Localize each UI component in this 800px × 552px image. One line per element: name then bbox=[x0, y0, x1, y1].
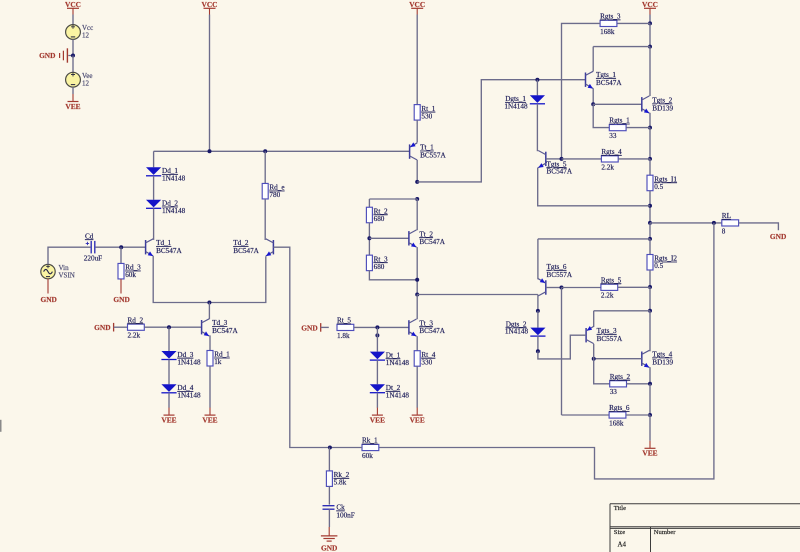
power VEE pin (output) bbox=[642, 441, 657, 458]
svg-text:Rgts_2: Rgts_2 bbox=[610, 373, 631, 381]
svg-text:VCC: VCC bbox=[201, 0, 217, 9]
wire Vee- to VEE pin bbox=[72, 87, 74, 94]
transistor Tt_3 BC547A bbox=[409, 319, 417, 336]
svg-text:GND: GND bbox=[770, 232, 786, 241]
svg-text:33: 33 bbox=[609, 132, 617, 140]
svg-text:VCC: VCC bbox=[65, 0, 81, 9]
junction VCC rail / Rgts_3 bbox=[648, 21, 652, 25]
transistor Tgts_1 BC547A bbox=[586, 71, 594, 88]
svg-text:A4: A4 bbox=[618, 540, 627, 548]
svg-text:Title: Title bbox=[614, 505, 626, 512]
wire Tgts_1 emitter down bbox=[592, 88, 594, 104]
junction Rt_2/Rt_3/Tt_2 base bbox=[367, 236, 371, 240]
wire diff pair top rail to Tt_1 base bbox=[154, 150, 410, 152]
resistor Rgts_I2 0.5 bbox=[647, 255, 677, 271]
svg-text:Tt_3: Tt_3 bbox=[419, 319, 433, 327]
wire Rt_4 to VEE bbox=[416, 366, 418, 408]
svg-text:BD139: BD139 bbox=[652, 105, 673, 113]
voltage source Vee 12V bbox=[66, 72, 81, 87]
wire VCC to rail bbox=[649, 15, 651, 24]
wire Rgts_I2 to Rgts_5 node bbox=[649, 270, 651, 287]
wire Tgts_4 emitter to rail bbox=[649, 367, 651, 384]
wire Tgts_3 emitter drop bbox=[593, 311, 595, 327]
junction Tgts_4 base / Tgts_3 collector bbox=[592, 357, 596, 361]
svg-text:VCC: VCC bbox=[642, 0, 658, 9]
wire Tgts_5 emitter return bbox=[538, 168, 650, 206]
wire Rd_2 to Td_3 base bbox=[144, 326, 201, 328]
svg-text:2.2k: 2.2k bbox=[601, 163, 614, 171]
svg-text:168k: 168k bbox=[600, 28, 615, 36]
resistor Rgts_1 33 bbox=[609, 117, 630, 140]
power VEE pin (supply column) bbox=[65, 94, 80, 111]
resistor Rgts_2 33 bbox=[610, 373, 631, 396]
wire Rgts_1 left lead bbox=[593, 104, 609, 127]
svg-text:5.8k: 5.8k bbox=[334, 479, 347, 487]
svg-text:Rgts_3: Rgts_3 bbox=[600, 13, 621, 21]
resistor Rt_2 680 bbox=[366, 207, 388, 223]
power VEE pin below Rd_1 bbox=[202, 408, 217, 425]
title block bbox=[610, 504, 800, 552]
svg-text:1N4148: 1N4148 bbox=[505, 327, 529, 335]
wire rail to Rd_e bbox=[264, 151, 266, 183]
resistor Rt_5 1.8k bbox=[337, 317, 354, 340]
wire junction to Dd_3 bbox=[168, 327, 170, 351]
svg-text:BD139: BD139 bbox=[652, 359, 673, 367]
ground below Rd_3 bbox=[113, 279, 129, 304]
ground symbol (supply midpoint) bbox=[60, 48, 73, 62]
junction Dgts_2 cathode bbox=[536, 349, 540, 353]
node B junction bbox=[415, 293, 419, 297]
svg-text:Td_2: Td_2 bbox=[233, 239, 249, 247]
wire Tgts_4 base lead bbox=[594, 358, 642, 360]
diode Dd_1 1N4148 bbox=[146, 167, 186, 183]
load resistor RL 8 bbox=[722, 212, 739, 235]
wire Dd_1 to Dd_2 bbox=[153, 176, 155, 200]
transistor Tgts_3 BC557A bbox=[586, 326, 594, 344]
svg-text:GND: GND bbox=[39, 51, 55, 60]
wire Tgts_6 emitter return bbox=[538, 238, 650, 240]
wire node B to Tt_3 collector bbox=[416, 295, 418, 320]
svg-text:BC547A: BC547A bbox=[156, 247, 182, 255]
wire Tt_1 collector to node A bbox=[416, 160, 418, 182]
node A junction bbox=[415, 180, 419, 184]
resistor Rd_3 60k bbox=[118, 263, 141, 279]
transistor Tgts_2 BD139 bbox=[642, 96, 650, 113]
svg-text:Vin: Vin bbox=[59, 264, 70, 272]
svg-text:Rgts_6: Rgts_6 bbox=[609, 404, 630, 412]
svg-text:1N4148: 1N4148 bbox=[504, 103, 528, 111]
wire Vin to Cd bbox=[48, 247, 90, 264]
wire rail to VEE bbox=[649, 415, 651, 441]
wire corner Rt_2 bbox=[368, 199, 370, 207]
wire Td_3 collector to emitter rail bbox=[208, 303, 210, 320]
transistor Tt_2 BC547A bbox=[409, 230, 417, 247]
wire Rgts_6 left lead bbox=[562, 414, 610, 416]
svg-text:2.2k: 2.2k bbox=[601, 292, 614, 300]
ground at Rd_2 bbox=[94, 323, 113, 332]
wire rail to Rgts_I1 bbox=[649, 159, 651, 175]
transistor Tgts_6 BC557A bbox=[538, 278, 546, 296]
power VEE pin below Dt_2 bbox=[370, 408, 385, 425]
transistor Tt_1 BC557A bbox=[410, 142, 418, 160]
wire base node down to Rgts_6 bbox=[561, 288, 563, 416]
wire Cd to Td_1 base bbox=[96, 246, 146, 248]
wire Ck to ground bbox=[328, 509, 330, 527]
wire junction to Rk_2 bbox=[328, 448, 330, 471]
svg-text:Tgts_1: Tgts_1 bbox=[596, 71, 616, 79]
wire GND to Rt_5 bbox=[321, 326, 329, 328]
transistor Td_1 BC547A bbox=[146, 239, 154, 256]
junction feedback / Rk_2 bbox=[328, 446, 332, 450]
svg-text:GND: GND bbox=[301, 323, 317, 332]
wire Dt_1 to Dt_2 bbox=[376, 360, 378, 384]
svg-text:Rgts_5: Rgts_5 bbox=[601, 276, 622, 284]
svg-text:VCC: VCC bbox=[409, 0, 425, 9]
power VCC pin (supply column) bbox=[65, 0, 81, 15]
wire Dgts_2 to Tgts_3 base bbox=[538, 335, 586, 359]
svg-text:12: 12 bbox=[82, 80, 90, 88]
diode Dd_3 1N4148 bbox=[161, 351, 201, 367]
svg-text:BC547A: BC547A bbox=[596, 79, 622, 87]
svg-text:GND: GND bbox=[40, 295, 56, 304]
svg-text:12: 12 bbox=[82, 32, 90, 40]
junction rail / Rgts_5 bbox=[648, 285, 652, 289]
svg-text:VEE: VEE bbox=[370, 415, 385, 424]
diode Dgts_1 1N4148 bbox=[504, 95, 545, 111]
junction input node bbox=[119, 245, 123, 249]
svg-text:Tgts_3: Tgts_3 bbox=[597, 327, 617, 335]
wire Rgts_1 to rail bbox=[626, 127, 650, 129]
wire output node down bbox=[649, 223, 651, 239]
wire Tgts_1 collector to rail bbox=[593, 46, 650, 48]
svg-text:1.8k: 1.8k bbox=[337, 332, 350, 340]
resistor Rt_3 680 bbox=[366, 255, 388, 271]
wire to Tgts_2 base bbox=[593, 103, 642, 105]
svg-text:8: 8 bbox=[722, 227, 726, 235]
wire Tgts_3 collector to Rgts_2 bbox=[594, 344, 610, 384]
output node junction bbox=[648, 221, 652, 225]
power VCC pin (VAS) bbox=[409, 0, 425, 15]
svg-text:680: 680 bbox=[374, 263, 385, 271]
junction Td_3 base / diode chain bbox=[167, 325, 171, 329]
wire Rgts_I1 to output node bbox=[649, 191, 651, 223]
svg-text:680: 680 bbox=[374, 215, 385, 223]
wire node to Rd_3 bbox=[120, 247, 122, 263]
svg-text:GND: GND bbox=[94, 323, 110, 332]
junction Dgts_2 anode bbox=[536, 309, 540, 313]
svg-text:VSIN: VSIN bbox=[59, 272, 75, 280]
power VEE pin below Dd_4 bbox=[161, 408, 176, 425]
wire rail to Tgts_2 collector bbox=[649, 47, 651, 96]
resistor Rgts_4 2.2k bbox=[601, 148, 622, 171]
wire junction to Tt_2 base bbox=[369, 237, 409, 239]
wire feedback from output bbox=[379, 223, 714, 479]
wire VCC to diff pair top rail bbox=[209, 15, 211, 152]
transistor Tgts_4 BD139 bbox=[642, 350, 650, 367]
svg-text:Td_3: Td_3 bbox=[212, 319, 228, 327]
wire Dd_4 to VEE bbox=[168, 393, 170, 408]
svg-text:220uF: 220uF bbox=[84, 254, 102, 262]
wire Rgts_3 to rail bbox=[617, 22, 650, 24]
svg-text:BC557A: BC557A bbox=[597, 335, 623, 343]
svg-text:1N4148: 1N4148 bbox=[162, 175, 186, 183]
svg-text:0.5: 0.5 bbox=[654, 262, 663, 270]
wire Rd_1 to VEE bbox=[209, 366, 211, 408]
svg-text:Rk_1: Rk_1 bbox=[362, 437, 378, 445]
wire junction to Dt_1 bbox=[376, 327, 378, 351]
svg-text:Rgts_1: Rgts_1 bbox=[609, 117, 630, 125]
wire Tgts_6 base lead bbox=[546, 287, 562, 289]
wire Tt_3 emitter to Rt_4 bbox=[416, 336, 418, 351]
svg-text:1N4148: 1N4148 bbox=[386, 359, 410, 367]
diode Dd_4 1N4148 bbox=[161, 384, 201, 400]
wire emitter rail of diff pair bbox=[153, 256, 266, 303]
ground symbol below Ck bbox=[321, 527, 338, 541]
wire junction to Dgts_1 bbox=[536, 80, 538, 96]
wire Rk_2 to Ck bbox=[328, 486, 330, 504]
junction Tgts_5 base node bbox=[560, 157, 564, 161]
svg-text:BC557A: BC557A bbox=[420, 151, 446, 159]
junction rail / Tgts_3 emitter return bbox=[648, 309, 652, 313]
wire GND node to Vee source bbox=[72, 56, 74, 73]
wire Vcc- to GND node bbox=[72, 39, 74, 55]
diode Dt_2 1N4148 bbox=[370, 384, 410, 400]
wire output node to RL bbox=[650, 222, 721, 224]
source Vin VSIN bbox=[41, 264, 55, 278]
wire rail segment bbox=[649, 384, 651, 415]
svg-text:VEE: VEE bbox=[202, 415, 217, 424]
junction Tgts_6 base node bbox=[560, 286, 564, 290]
resistor Rk_1 60k bbox=[362, 437, 379, 460]
wire Dd_3 to Dd_4 bbox=[168, 360, 170, 385]
resistor Rd_2 2.2k bbox=[128, 316, 145, 339]
svg-text:GND: GND bbox=[113, 295, 129, 304]
wire Tt_2 emitter down to node B bbox=[416, 247, 418, 294]
svg-text:330: 330 bbox=[421, 358, 432, 366]
resistor Rk_2 5.8k bbox=[326, 471, 349, 487]
junction node A / Rt_2 branch bbox=[415, 197, 419, 201]
wire to Dgts_2 bbox=[537, 311, 539, 328]
resistor Rd_1 1k bbox=[207, 351, 230, 367]
wire Rt_2 to Rt_3 bbox=[368, 223, 370, 256]
junction rail / Rgts_2 bbox=[648, 382, 652, 386]
svg-text:VEE: VEE bbox=[410, 415, 425, 424]
svg-text:VEE: VEE bbox=[642, 449, 657, 458]
diode Dgts_2 1N4148 bbox=[505, 320, 546, 336]
junction Rt_3 / emitter bbox=[415, 278, 419, 282]
junction top rail / VCC bbox=[208, 149, 212, 153]
wire Rt_3 to emitter node bbox=[369, 270, 417, 280]
wire rail to Rgts_I2 bbox=[649, 239, 651, 255]
sheet edge mark bbox=[0, 420, 2, 432]
wire branch top to Rt_2 bbox=[369, 198, 417, 200]
svg-text:Tt_2: Tt_2 bbox=[419, 230, 433, 238]
ground at Rt_5 bbox=[301, 323, 320, 332]
wire Dt_2 to VEE bbox=[376, 393, 378, 408]
svg-text:Rd_2: Rd_2 bbox=[128, 316, 144, 324]
svg-text:BC547A: BC547A bbox=[419, 327, 445, 335]
junction supply midpoint bbox=[71, 54, 75, 58]
wire rail segment bbox=[649, 128, 651, 159]
resistor Rt_1 530 bbox=[414, 105, 436, 121]
wire Dgts_1 to Tgts_5 collector bbox=[536, 104, 538, 151]
wire rail to Tgts_4 collector bbox=[649, 311, 651, 352]
svg-text:1N4148: 1N4148 bbox=[386, 392, 410, 400]
wire feedback to Td_2 base bbox=[273, 247, 362, 447]
wire node B to output driver bbox=[417, 294, 538, 296]
svg-text:BC547A: BC547A bbox=[419, 238, 445, 246]
wire Rgts_2 to rail bbox=[627, 383, 651, 385]
wire Dgts_2 to junction bbox=[537, 336, 539, 351]
wire Rt_5 to Tt_3 base bbox=[354, 326, 409, 328]
svg-text:RL: RL bbox=[722, 212, 731, 220]
svg-text:BC547A: BC547A bbox=[212, 327, 238, 335]
wire base node to Rgts_5 bbox=[562, 287, 601, 289]
resistor Rt_4 330 bbox=[414, 351, 436, 367]
junction Tt_3 base / Dt chain bbox=[375, 325, 379, 329]
svg-text:BC547A: BC547A bbox=[547, 168, 573, 176]
wire base node to Rgts_4 bbox=[562, 158, 602, 160]
svg-text:BC557A: BC557A bbox=[547, 271, 573, 279]
wire VCC to Vcc source bbox=[72, 15, 74, 25]
ground at RL bbox=[770, 232, 786, 241]
svg-text:Rt_5: Rt_5 bbox=[337, 317, 351, 325]
junction rail / Rgts_4 bbox=[648, 157, 652, 161]
svg-text:1k: 1k bbox=[214, 358, 222, 366]
wire Tgts_2 emitter to rail bbox=[649, 113, 651, 128]
junction diff pair emitters / Td_3 collector bbox=[207, 301, 211, 305]
svg-text:Number: Number bbox=[654, 529, 676, 536]
svg-text:60k: 60k bbox=[362, 452, 373, 460]
junction rail / Tgts_6 emitter return bbox=[648, 237, 652, 241]
svg-text:60k: 60k bbox=[125, 271, 136, 279]
svg-text:1N4148: 1N4148 bbox=[177, 392, 201, 400]
junction RL / feedback bbox=[712, 221, 716, 225]
junction rail / Rgts_6 bbox=[648, 413, 652, 417]
wire collector drop bbox=[592, 47, 594, 72]
svg-text:0.5: 0.5 bbox=[654, 183, 663, 191]
capacitor Cd 220uF bbox=[86, 241, 95, 254]
svg-text:2.2k: 2.2k bbox=[128, 332, 141, 340]
svg-text:Td_1: Td_1 bbox=[156, 239, 172, 247]
svg-text:530: 530 bbox=[421, 112, 432, 120]
wire Rt_1 to Tt_1 emitter bbox=[416, 120, 418, 142]
junction pin dot Dt chain bbox=[375, 333, 379, 337]
transistor Tgts_5 BC547A bbox=[538, 151, 546, 168]
wire Dd_2 to Td_1 collector bbox=[152, 208, 154, 239]
svg-text:Cd: Cd bbox=[85, 232, 94, 240]
ground below Vin bbox=[40, 279, 56, 304]
wire rail to Dd_1 bbox=[153, 151, 155, 167]
transistor Td_3 BC547A bbox=[202, 319, 210, 336]
svg-text:BC547A: BC547A bbox=[233, 247, 259, 255]
svg-text:Tt_1: Tt_1 bbox=[420, 144, 434, 152]
svg-text:Tgts_2: Tgts_2 bbox=[652, 97, 672, 105]
diode Dt_1 1N4148 bbox=[370, 351, 410, 367]
resistor Rgts_6 168k bbox=[609, 404, 630, 427]
wire Rgts_3 to Tgts_5 base node bbox=[562, 23, 601, 159]
svg-text:168k: 168k bbox=[609, 419, 624, 427]
svg-text:Size: Size bbox=[614, 529, 625, 536]
svg-text:780: 780 bbox=[269, 191, 280, 199]
stub bbox=[641, 95, 643, 97]
wire node A to Tgts_1 base bbox=[417, 80, 585, 182]
junction rail / Rgts_1 bbox=[648, 126, 652, 130]
wire Tgts_6 emitter drop bbox=[537, 239, 539, 279]
wire Rd_e to Td_2 collector bbox=[264, 199, 267, 239]
wire RL to GND bbox=[739, 223, 779, 230]
wire GND to Rd_2 bbox=[114, 326, 128, 328]
svg-text:Tgts_4: Tgts_4 bbox=[652, 351, 672, 359]
wire Rgts_4 to rail bbox=[618, 158, 650, 160]
wire Tgts_3 emitter return bbox=[594, 310, 650, 312]
svg-text:Ck: Ck bbox=[336, 504, 345, 512]
wire Tgts_5 base lead bbox=[546, 158, 562, 160]
svg-text:33: 33 bbox=[610, 388, 618, 396]
wire Td_3 emitter to Rd_1 bbox=[208, 336, 211, 351]
svg-text:1N4148: 1N4148 bbox=[177, 358, 201, 366]
power VCC pin (output) bbox=[642, 0, 658, 15]
junction Tgts_1 emitter / Tgts_2 base / Rgts_1 bbox=[591, 102, 595, 106]
svg-text:GND: GND bbox=[321, 544, 337, 552]
svg-text:VEE: VEE bbox=[65, 102, 80, 111]
wire driver node to Dgts_2 bbox=[537, 295, 539, 311]
resistor Rd_e 780 bbox=[262, 183, 284, 199]
svg-text:100nF: 100nF bbox=[336, 511, 354, 519]
diode Dd_2 1N4148 bbox=[146, 200, 186, 216]
svg-text:VEE: VEE bbox=[161, 415, 176, 424]
junction rail / Tgts_1 collector bbox=[648, 45, 652, 49]
junction Tgts_1 base / Dgts_1 bbox=[535, 78, 539, 82]
wire node A branch to Tt_2 collector bbox=[416, 199, 418, 230]
svg-text:Tgts_6: Tgts_6 bbox=[547, 263, 567, 271]
wire stub bbox=[408, 246, 410, 248]
voltage source Vcc 12V bbox=[66, 25, 81, 40]
wire rail segment bbox=[649, 287, 651, 311]
wire Rgts_5 to rail bbox=[618, 286, 650, 288]
junction rail / Tgts_5 emitter return bbox=[648, 204, 652, 208]
capacitor Ck 100nF bbox=[323, 506, 335, 510]
resistor Rgts_5 2.2k bbox=[601, 276, 622, 299]
svg-text:Rgts_4: Rgts_4 bbox=[601, 148, 622, 156]
junction top rail / Rd_e branch bbox=[263, 149, 267, 153]
wire rail segment bbox=[649, 23, 651, 46]
svg-text:1N4148: 1N4148 bbox=[162, 207, 186, 215]
power VCC pin (diff pair) bbox=[201, 0, 217, 15]
wire VCC to Rt_1 bbox=[416, 15, 418, 105]
wire Rgts_6 to rail bbox=[626, 414, 650, 416]
transistor Td_2 BC547A bbox=[266, 239, 274, 256]
power VEE pin below Rt_4 bbox=[410, 408, 425, 425]
resistor Rgts_I1 0.5 bbox=[647, 175, 677, 191]
resistor Rgts_3 168k bbox=[600, 13, 621, 36]
wire stub2 bbox=[408, 335, 410, 337]
